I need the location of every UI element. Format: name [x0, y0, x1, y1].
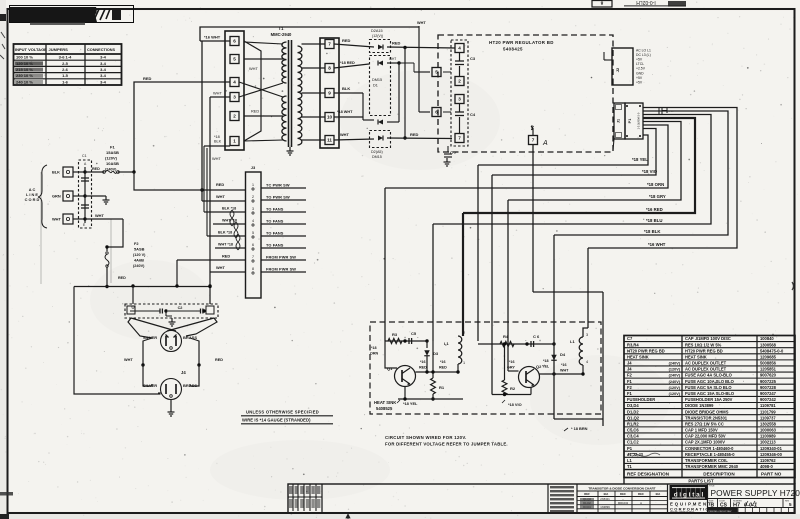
svg-text:MR1032: MR1032: [618, 501, 629, 505]
svg-text:DEC: DEC: [620, 492, 626, 496]
svg-text:(120V): (120V): [105, 156, 118, 161]
svg-text:1: 1: [252, 183, 254, 187]
svg-text:D2A15: D2A15: [371, 29, 383, 33]
svg-text:POWER SUPPLY H720: POWER SUPPLY H720: [711, 488, 800, 498]
svg-text:L1: L1: [570, 339, 575, 344]
svg-text:DESCRIPTION: DESCRIPTION: [703, 472, 735, 477]
svg-text:FUSEHOLDER 15A 250V: FUSEHOLDER 15A 250V: [685, 397, 733, 402]
svg-text:PARTS LIST: PARTS LIST: [688, 479, 714, 484]
svg-text:REF: REF: [584, 492, 590, 496]
svg-text:Q2: Q2: [536, 364, 542, 369]
svg-text:RED: RED: [222, 254, 230, 259]
svg-text:1109781: 1109781: [760, 403, 776, 408]
svg-text:TO FANS: TO FANS: [266, 231, 284, 236]
svg-text:1: 1: [463, 361, 465, 365]
svg-text:EIA: EIA: [604, 492, 609, 496]
svg-text:*18 YEL: *18 YEL: [403, 401, 418, 406]
svg-text:8: 8: [328, 66, 331, 71]
svg-text:3: 3: [233, 95, 236, 100]
svg-text:4: 4: [586, 360, 588, 364]
svg-text:T1: T1: [279, 26, 285, 31]
svg-text:(120V): (120V): [669, 368, 681, 372]
svg-text:TO PWR SW: TO PWR SW: [266, 195, 290, 200]
svg-text:EIA: EIA: [656, 492, 661, 496]
svg-text:8: 8: [252, 267, 254, 271]
svg-text:*16: *16: [440, 360, 446, 364]
svg-text:RES 27Ω 1W 5% CC: RES 27Ω 1W 5% CC: [685, 421, 724, 426]
svg-text:JUMPERS: JUMPERS: [49, 47, 69, 52]
svg-text:DIODE 1N3899: DIODE 1N3899: [685, 403, 714, 408]
svg-text:FUSE AGC 5A SLO BLO: FUSE AGC 5A SLO BLO: [685, 385, 732, 390]
svg-text:L1: L1: [627, 458, 633, 463]
svg-text:*18 GRY: *18 GRY: [649, 194, 666, 199]
svg-text:HEAT SINK: HEAT SINK: [627, 354, 649, 359]
svg-text:FUSE AGC 10A SLO BLO: FUSE AGC 10A SLO BLO: [685, 379, 735, 384]
svg-text:1: 1: [233, 139, 236, 144]
svg-text:WHT: WHT: [95, 213, 104, 218]
svg-text:5: 5: [233, 57, 236, 62]
svg-text:F1: F1: [627, 391, 633, 396]
svg-text:C O R D: C O R D: [25, 197, 40, 202]
svg-text:(120V): (120V): [669, 392, 681, 396]
svg-text:T1: T1: [627, 464, 633, 469]
svg-text:D3,D4: D3,D4: [627, 403, 639, 408]
svg-text:C1,C2: C1,C2: [627, 440, 639, 445]
svg-text:1209346-00: 1209346-00: [760, 452, 783, 457]
svg-text:BLK *18: BLK *18: [222, 207, 236, 211]
svg-text:TO FANS: TO FANS: [266, 243, 284, 248]
svg-text:AC DUPLEX OUTLET: AC DUPLEX OUTLET: [685, 361, 727, 366]
svg-text:F2: F2: [627, 385, 633, 390]
svg-text:R3: R3: [392, 332, 398, 337]
svg-text:1209685: 1209685: [760, 354, 777, 359]
svg-text:TC PWR SW: TC PWR SW: [266, 183, 290, 188]
svg-text:J4: J4: [627, 367, 632, 372]
svg-text:PRINTED CIRCUIT REV: PRINTED CIRCUIT REV: [709, 511, 733, 513]
svg-text:7: 7: [458, 136, 461, 141]
svg-text:1101799: 1101799: [760, 409, 776, 414]
svg-text:RED: RED: [251, 109, 259, 114]
svg-text:3: 3: [252, 207, 254, 211]
svg-text:9: 9: [328, 91, 331, 96]
svg-text:3: 3: [458, 97, 461, 102]
svg-text:100840: 100840: [760, 336, 774, 341]
svg-text:*18: *18: [371, 346, 377, 350]
svg-text:PART NO: PART NO: [761, 472, 782, 477]
svg-text:2N5301: 2N5301: [600, 497, 610, 501]
svg-text:1302558: 1302558: [760, 421, 777, 426]
svg-text:CONNECTIONS: CONNECTIONS: [87, 48, 116, 52]
svg-text:1205851: 1205851: [760, 367, 777, 372]
svg-text:MAYNARD. MASSACHUSETTS: MAYNARD. MASSACHUSETTS: [670, 511, 695, 514]
svg-text:d i g i t a l: d i g i t a l: [674, 491, 704, 498]
svg-text:D2(A5): D2(A5): [371, 150, 383, 154]
svg-text:WHT: WHT: [417, 21, 426, 25]
svg-text:5: 5: [252, 231, 254, 235]
svg-text:WHT: WHT: [52, 217, 61, 222]
svg-text:BLK: BLK: [342, 86, 350, 91]
svg-text:5: 5: [435, 70, 438, 75]
svg-text:C3: C3: [470, 56, 476, 61]
svg-text:ORN: ORN: [370, 352, 379, 356]
svg-text:RED: RED: [410, 132, 419, 137]
svg-text:REC: REC: [638, 492, 644, 496]
svg-text:WHT: WHT: [560, 369, 569, 373]
svg-text:*18 WHT: *18 WHT: [337, 110, 353, 114]
svg-text:LTCL: LTCL: [636, 62, 644, 66]
svg-text:YEL: YEL: [542, 365, 550, 369]
svg-text:9007225: 9007225: [760, 379, 777, 384]
svg-text:R4: R4: [503, 334, 509, 339]
svg-text:10: 10: [327, 115, 333, 120]
svg-text:C4: C4: [470, 112, 476, 117]
svg-text:WHT: WHT: [216, 194, 225, 199]
svg-text:3: 3: [586, 333, 588, 337]
svg-text:RED: RED: [215, 358, 223, 362]
svg-text:*18 BLU: *18 BLU: [646, 218, 662, 223]
svg-text:WHT: WHT: [212, 156, 221, 161]
svg-text:4: 4: [252, 219, 254, 223]
svg-text:2: 2: [252, 195, 254, 199]
svg-text:C5: C5: [411, 331, 417, 336]
svg-text:F2: F2: [627, 373, 633, 378]
svg-text:4A6B: 4A6B: [134, 258, 144, 263]
svg-text:P1: P1: [628, 119, 632, 124]
svg-text:9007228: 9007228: [760, 385, 777, 390]
svg-text:+: +: [539, 339, 541, 343]
svg-text:1109737: 1109737: [760, 415, 776, 420]
svg-text:7: 7: [252, 255, 254, 259]
svg-text:DM15: DM15: [372, 78, 382, 82]
svg-text:WHT *18: WHT *18: [218, 243, 233, 247]
svg-text:4: 4: [233, 80, 236, 85]
svg-text:RES 10Ω 1/2 W 5%: RES 10Ω 1/2 W 5%: [685, 342, 722, 347]
svg-text:C3,C4: C3,C4: [627, 434, 639, 439]
svg-text:CAP .01MFD 100V DISC: CAP .01MFD 100V DISC: [685, 336, 731, 341]
svg-text:CONNECTOR 1-480460-0: CONNECTOR 1-480460-0: [685, 446, 734, 451]
svg-text:6: 6: [252, 243, 254, 247]
svg-text:+2.5V: +2.5V: [636, 67, 646, 71]
svg-text:(120V): (120V): [669, 386, 681, 390]
svg-text:5408525: 5408525: [376, 406, 393, 411]
svg-text:RED: RED: [143, 76, 152, 81]
svg-text:TO FANS: TO FANS: [266, 207, 284, 212]
svg-text:11: 11: [327, 138, 332, 143]
svg-text:D1,D2: D1,D2: [627, 409, 639, 414]
svg-text:3-4: 3-4: [100, 67, 107, 72]
svg-text:RED: RED: [92, 167, 100, 171]
svg-text:5008856: 5008856: [760, 361, 777, 366]
svg-text:1N3899: 1N3899: [600, 505, 610, 509]
svg-text:FROM PWR SW: FROM PWR SW: [266, 255, 296, 260]
svg-text:*16: *16: [420, 360, 426, 364]
svg-text:F1: F1: [627, 379, 633, 384]
svg-text:4098-0: 4098-0: [760, 464, 773, 469]
svg-text:R3,R4: R3,R4: [627, 342, 639, 347]
svg-text:WHT: WHT: [124, 358, 133, 362]
svg-text:9007247: 9007247: [760, 391, 777, 396]
svg-text:*18 RED: *18 RED: [340, 61, 355, 65]
svg-text:9007242: 9007242: [760, 397, 777, 402]
svg-text:5ASB: 5ASB: [134, 247, 145, 252]
svg-text:D1: D1: [373, 84, 378, 88]
svg-text:15ASB: 15ASB: [106, 150, 119, 155]
svg-text:RECEPTACLE 1-480455-0: RECEPTACLE 1-480455-0: [685, 452, 735, 457]
svg-text:WHT: WHT: [216, 265, 225, 270]
svg-text:FUSEHOLDER: FUSEHOLDER: [627, 397, 655, 402]
svg-text:HEAT SINK: HEAT SINK: [374, 400, 396, 405]
svg-text:J4: J4: [627, 361, 632, 366]
svg-text:6: 6: [233, 39, 236, 44]
svg-text:*18: *18: [543, 359, 549, 363]
svg-text:*16 WHT: *16 WHT: [648, 242, 666, 247]
svg-text:INPUT VOLTAGE: INPUT VOLTAGE: [15, 47, 47, 52]
svg-text:HEAT SINK: HEAT SINK: [685, 354, 707, 359]
svg-text:HT20 PWR REG BD: HT20 PWR REG BD: [685, 348, 723, 353]
svg-text:5: 5: [789, 502, 792, 507]
svg-text:+5V: +5V: [636, 80, 643, 84]
svg-text:FUSE AGC 4A SLO-BLO: FUSE AGC 4A SLO-BLO: [685, 373, 733, 378]
svg-text:FUSE AGC 15A SLO-BLO: FUSE AGC 15A SLO-BLO: [685, 391, 735, 396]
svg-text:WIRE IS *14 GAUGE (STRANDED): WIRE IS *14 GAUGE (STRANDED): [242, 418, 311, 423]
svg-text:2: 2: [463, 331, 465, 335]
svg-text:2: 2: [458, 79, 461, 84]
svg-text:RED: RED: [392, 41, 401, 46]
svg-text:*18 VIO: *18 VIO: [642, 169, 658, 174]
svg-text:9007620: 9007620: [760, 373, 777, 378]
svg-text:*16 RED: *16 RED: [646, 207, 663, 212]
svg-text:1-5: 1-5: [62, 73, 69, 78]
svg-text:*16 WHT: *16 WHT: [204, 35, 221, 40]
svg-text:TO FANS: TO FANS: [266, 219, 284, 224]
svg-text:TRANSISTOR 2N5301: TRANSISTOR 2N5301: [685, 415, 728, 420]
svg-text:A: A: [542, 140, 548, 147]
svg-text:+5V: +5V: [636, 76, 643, 80]
svg-text:CAP 22,000 MFD 50V: CAP 22,000 MFD 50V: [685, 434, 726, 439]
svg-text:(240V): (240V): [133, 264, 145, 268]
svg-text:+5V: +5V: [636, 58, 643, 62]
svg-text:1300568: 1300568: [760, 342, 777, 347]
svg-text:R1,R2: R1,R2: [627, 421, 639, 426]
svg-text:GND: GND: [636, 71, 644, 75]
svg-text:AC DUPLEX OUTLET: AC DUPLEX OUTLET: [685, 367, 727, 372]
svg-text:RED: RED: [342, 38, 351, 43]
svg-text:1109762: 1109762: [760, 458, 776, 463]
svg-text:WHT: WHT: [340, 132, 349, 137]
svg-text:3-4: 3-4: [100, 73, 107, 78]
svg-text:Q1: Q1: [387, 366, 393, 371]
svg-text:8: 8: [600, 0, 603, 5]
svg-text:1-3 5(A8)4 5-0: 1-3 5(A8)4 5-0: [637, 112, 641, 129]
svg-text:2-6: 2-6: [62, 67, 69, 72]
svg-text:BLK: BLK: [214, 140, 222, 144]
svg-text:L1: L1: [444, 341, 449, 346]
svg-text:10ASB: 10ASB: [106, 161, 119, 166]
svg-text:RED: RED: [419, 366, 427, 370]
svg-text:WHT: WHT: [213, 91, 222, 96]
svg-text:7: 7: [532, 138, 535, 143]
svg-text:FROM PWR SW: FROM PWR SW: [266, 267, 296, 272]
svg-text:3-4: 3-4: [100, 79, 107, 84]
svg-text:SILVER: SILVER: [143, 335, 157, 340]
svg-text:WHT: WHT: [249, 66, 258, 71]
svg-text:CAP 1 MFD 150V: CAP 1 MFD 150V: [685, 428, 718, 433]
svg-text:J1: J1: [617, 119, 621, 123]
svg-text:7: 7: [328, 42, 331, 47]
svg-text:*18 VIO: *18 VIO: [508, 402, 522, 407]
svg-text:(240V): (240V): [669, 380, 681, 384]
svg-text:MMC-2940: MMC-2940: [271, 32, 292, 37]
svg-text:C5,C6: C5,C6: [627, 428, 639, 433]
svg-text:5408425: 5408425: [503, 47, 523, 52]
svg-text:*16: *16: [561, 363, 567, 367]
svg-text:1-6: 1-6: [62, 79, 69, 84]
svg-text:C2: C2: [178, 306, 183, 310]
svg-text:DIODE BRIDGE OHMS: DIODE BRIDGE OHMS: [685, 409, 729, 414]
svg-text:TRANSFORMER COIL: TRANSFORMER COIL: [685, 458, 728, 463]
svg-text:C 7: C 7: [450, 150, 457, 155]
svg-text:UNLESS OTHERWISE SPECIFIED: UNLESS OTHERWISE SPECIFIED: [246, 410, 319, 415]
svg-text:DM15: DM15: [372, 155, 382, 159]
svg-text:(240V): (240V): [669, 374, 681, 378]
svg-text:RED: RED: [118, 276, 126, 280]
svg-text:C1: C1: [82, 154, 87, 158]
svg-text:--: --: [622, 498, 624, 501]
svg-text:4: 4: [458, 46, 461, 51]
svg-text:A: A: [640, 501, 642, 505]
svg-text:F1: F1: [110, 145, 115, 150]
svg-text:3-4: 3-4: [100, 55, 107, 60]
svg-text:AC LO L1: AC LO L1: [636, 49, 651, 53]
svg-text:1002113: 1002113: [760, 440, 776, 445]
svg-text:J4: J4: [181, 370, 186, 375]
svg-text:1000063: 1000063: [760, 428, 777, 433]
svg-text:1100989: 1100989: [760, 434, 776, 439]
svg-text:C7: C7: [627, 336, 633, 341]
svg-text:R1: R1: [439, 385, 445, 390]
svg-text:BLK: BLK: [52, 170, 60, 175]
svg-text:J2: J2: [615, 67, 620, 72]
svg-text:FOR DIFFERENT VOLTAGE REFER: FOR DIFFERENT VOLTAGE REFER TO JUMPER TA…: [385, 442, 508, 447]
svg-text:100 10 %: 100 10 %: [16, 55, 33, 60]
svg-text:WHT *18: WHT *18: [222, 219, 237, 223]
svg-text:RED: RED: [216, 182, 224, 187]
svg-text:REF DESIGNATION: REF DESIGNATION: [627, 472, 670, 477]
svg-text:*18: *18: [214, 135, 220, 139]
svg-text:C O R P O R A T I O N: C O R P O R A T I O N: [670, 506, 713, 511]
svg-text:I-0-02LH: I-0-02LH: [636, 0, 656, 5]
svg-text:*18 YEL: *18 YEL: [632, 157, 648, 162]
svg-text:TRANSISTOR & DIODE CONVERSION: TRANSISTOR & DIODE CONVERSION CHART: [588, 487, 655, 491]
svg-text:2-5: 2-5: [62, 61, 69, 66]
svg-text:(120 V): (120 V): [133, 253, 146, 257]
svg-text:(240V): (240V): [105, 168, 117, 172]
svg-text:BLK *18: BLK *18: [218, 231, 232, 235]
svg-text:Q1,Q2: Q1,Q2: [627, 415, 640, 420]
svg-text:R2: R2: [510, 386, 516, 391]
svg-text:1209340-01: 1209340-01: [760, 446, 783, 451]
svg-text:3-6 1-4: 3-6 1-4: [59, 55, 72, 60]
svg-text:*18 ORN: *18 ORN: [647, 182, 664, 187]
svg-text:CAP 2X.1MFD 1000V: CAP 2X.1MFD 1000V: [685, 440, 725, 445]
svg-text:3-4: 3-4: [100, 61, 107, 66]
svg-text:TRANSFORMER MMC 2940: TRANSFORMER MMC 2940: [685, 464, 739, 469]
svg-text:P1: P1: [627, 446, 633, 451]
svg-text:CIRCUIT SHOWN WIRED FOR 12: CIRCUIT SHOWN WIRED FOR 120V.: [385, 435, 467, 440]
svg-text:*18 BLK: *18 BLK: [644, 229, 661, 234]
svg-text:*16: *16: [509, 360, 515, 364]
svg-text:D3: D3: [433, 351, 439, 356]
svg-text:* 18 BRN: * 18 BRN: [571, 426, 588, 431]
svg-text:RED: RED: [439, 366, 447, 370]
svg-text:HT20 PWR REGULATOR BD: HT20 PWR REGULATOR BD: [489, 40, 554, 45]
svg-text:(12(V)): (12(V)): [372, 34, 383, 38]
svg-text:HT20 PWR REG BD: HT20 PWR REG BD: [627, 348, 665, 353]
svg-text:D4: D4: [560, 352, 566, 357]
svg-text:6: 6: [435, 110, 438, 115]
svg-text:J3: J3: [251, 165, 256, 170]
svg-text:2: 2: [233, 114, 236, 119]
svg-text:(240V): (240V): [669, 362, 681, 366]
svg-text:WHT: WHT: [389, 57, 396, 61]
svg-text:GRN: GRN: [52, 194, 61, 199]
svg-text:5408475-0-0: 5408475-0-0: [760, 348, 784, 353]
svg-text:DC L3 (L): DC L3 (L): [636, 53, 651, 57]
